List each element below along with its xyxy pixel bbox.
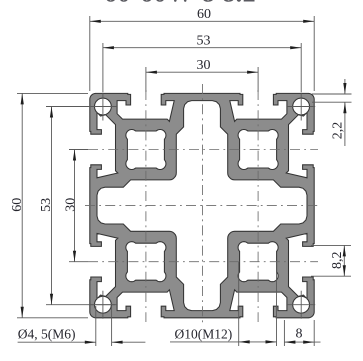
svg-text:8: 8 [296, 327, 303, 342]
svg-text:Ø4, 5(M6): Ø4, 5(M6) [18, 327, 76, 342]
svg-text:53: 53 [39, 198, 54, 212]
svg-text:2,2: 2,2 [330, 122, 345, 140]
svg-text:53: 53 [197, 33, 211, 48]
svg-text:60: 60 [197, 7, 211, 22]
svg-text:8,2: 8,2 [330, 252, 345, 270]
svg-text:30: 30 [197, 58, 211, 73]
svg-text:Ø10(M12): Ø10(M12) [175, 327, 233, 342]
svg-text:30: 30 [63, 198, 78, 212]
svg-text:60: 60 [10, 198, 25, 212]
svg-text:60-60W-8 8.2: 60-60W-8 8.2 [104, 0, 256, 8]
